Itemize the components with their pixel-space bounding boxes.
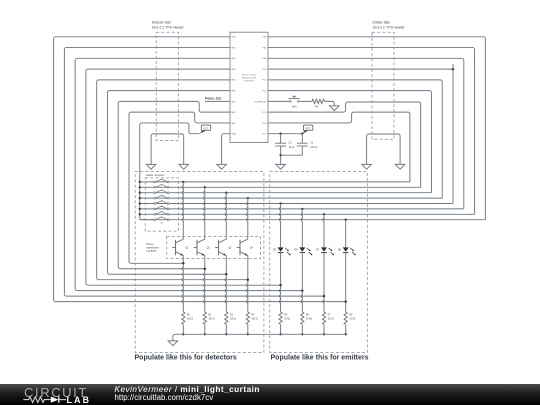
svg-text:100 Ω: 100 Ω	[187, 319, 193, 321]
svg-text:Q1: Q1	[185, 247, 189, 250]
wire matrix row 1	[169, 181, 410, 183]
wire PA5 to bottom row 5	[86, 69, 281, 285]
wire matrix row 7	[169, 213, 474, 215]
LED D8	[343, 247, 349, 251]
svg-text:R3: R3	[230, 314, 234, 316]
wire anode column D8	[345, 220, 347, 248]
wire GND pin to ground	[222, 134, 230, 165]
svg-text:10 kΩ: 10 kΩ	[349, 319, 355, 321]
resistor R4 100 Ohm	[246, 312, 249, 325]
svg-text:D5: D5	[273, 248, 277, 251]
wire cathode column D5 to R5	[279, 253, 280, 312]
junction R2 rail	[204, 333, 206, 335]
net flag VCC (right)	[302, 131, 308, 134]
junction row 6 at column	[301, 208, 303, 210]
solder jumpers box	[145, 178, 178, 231]
junction cathode D8 bottom row 8	[345, 300, 347, 302]
svg-text:Photo: Photo	[146, 242, 154, 246]
svg-text:D7: D7	[316, 248, 320, 251]
wire emitter column Q1 to R1	[182, 256, 183, 312]
wire emitter column Q4 to R4	[247, 256, 248, 312]
wire SW1 to R9	[299, 100, 312, 102]
ground (caps)	[276, 164, 286, 169]
CircuitLab logo	[0, 384, 110, 405]
svg-text:VCC: VCC	[203, 126, 209, 130]
ground (emitter header left)	[362, 164, 372, 169]
junction PA6 row at column x=302.3	[301, 290, 303, 292]
junction R7 rail	[323, 333, 325, 335]
populate detectors box	[135, 172, 264, 353]
svg-text:R7: R7	[328, 314, 332, 316]
resistor R5 10 kOhm	[279, 312, 282, 325]
wire anode column D5	[279, 204, 280, 248]
junction PA0 row at Q1 column	[182, 262, 184, 264]
junction PB0 row at column x=345.7	[345, 300, 347, 302]
svg-text:D8: D8	[338, 248, 342, 251]
photo transistors box	[167, 237, 261, 259]
junction VCC at C2	[279, 133, 281, 135]
junction PA3 row at column x=226.3	[225, 273, 227, 275]
solder jumper J4	[140, 197, 169, 199]
svg-text:10 kΩ: 10 kΩ	[306, 319, 312, 321]
wire matrix row 3	[169, 192, 431, 194]
svg-text:VCC: VCC	[262, 134, 267, 136]
svg-text:J8: J8	[160, 222, 163, 224]
wire PB2 to top row 7	[268, 48, 475, 215]
svg-text:Populate like this for emitter: Populate like this for emitters	[271, 355, 369, 362]
junction emitter Q2 bottom row 2	[204, 268, 206, 270]
junction row 1 at column	[182, 181, 184, 183]
wire collector column Q3	[225, 193, 226, 239]
svg-text:100 Ω: 100 Ω	[251, 319, 257, 321]
resistor R7 10 kOhm	[322, 312, 325, 325]
solder jumper J8	[140, 219, 169, 221]
detector header box	[156, 32, 178, 140]
junction emitter Q1 bottom row 1	[182, 262, 184, 264]
svg-text:TSSOP20: TSSOP20	[244, 81, 255, 83]
wire emitter column Q3 to R3	[225, 256, 226, 312]
wire PB0 to bottom row 8	[54, 37, 346, 302]
ground (rail)	[168, 341, 178, 346]
LED D6	[299, 247, 305, 251]
svg-text:PC3/RESET: PC3/RESET	[254, 101, 267, 103]
wire PB3 to top row 6	[268, 58, 464, 209]
junction R5 rail	[279, 333, 281, 335]
resistor R9	[312, 99, 325, 103]
wire cathode column D6 to R6	[301, 253, 302, 312]
populate emitters box	[270, 172, 368, 353]
svg-text:10 kΩ: 10 kΩ	[328, 319, 334, 321]
junction row 5 at column	[279, 202, 281, 204]
svg-text:100 Ω: 100 Ω	[230, 319, 236, 321]
svg-text:Q4: Q4	[250, 247, 254, 250]
junction row 8 at column	[345, 219, 347, 221]
wire PC0 to top row 5	[268, 69, 453, 203]
junction cathode D5 bottom row 5	[279, 284, 281, 286]
net flag VCC (left)	[200, 131, 207, 134]
svg-text:Solder Jumpers: Solder Jumpers	[146, 173, 165, 177]
svg-text:10x1 0.1" PTH Header: 10x1 0.1" PTH Header	[152, 26, 185, 30]
junction row 7 at column	[323, 213, 325, 215]
junction R3 rail	[225, 333, 227, 335]
solder jumper J5	[140, 203, 169, 205]
wire ground rail	[173, 334, 346, 341]
wire matrix row 6	[169, 208, 464, 210]
wire collector column Q2	[204, 187, 205, 239]
transistor Q3 (photo)	[219, 239, 227, 243]
solder jumper J7	[140, 213, 169, 215]
svg-text:not BJTs: not BJTs	[146, 249, 157, 253]
wire PA1 to bottom row 2	[118, 101, 230, 268]
resistor R8 10 kOhm	[344, 312, 347, 325]
svg-text:SW1: SW1	[292, 107, 298, 109]
wire VCC pin to decoupling caps	[268, 133, 302, 135]
svg-text:Detector Side: Detector Side	[152, 21, 172, 25]
wire emitter column Q2 to R2	[204, 256, 205, 312]
svg-text:10 kΩ: 10 kΩ	[284, 319, 290, 321]
transistor Q1 (photo)	[176, 239, 184, 243]
svg-text:transistors: transistors	[146, 246, 159, 250]
wire detector header ground bridge	[151, 134, 184, 165]
switch SW1	[290, 101, 292, 103]
svg-text:R4: R4	[251, 314, 255, 316]
wire matrix row 8	[169, 219, 485, 221]
wire R9 to ground	[324, 101, 334, 105]
svg-text:Microcontroller: Microcontroller	[242, 74, 257, 77]
junction emitter Q4 bottom row 4	[247, 279, 249, 281]
wire caps bottom to ground	[281, 154, 303, 156]
resistor R1 100 Ohm	[182, 312, 185, 325]
svg-text:Pulse_Out: Pulse_Out	[205, 96, 222, 100]
svg-text:Emitter Side: Emitter Side	[373, 21, 391, 25]
junction R1 rail	[182, 333, 184, 335]
ground (reset)	[330, 106, 340, 111]
microcontroller U1 ATtiny40 TSSOP20	[230, 32, 268, 142]
svg-text:R8: R8	[349, 314, 353, 316]
svg-text:D6: D6	[294, 248, 298, 251]
junction row 4 at column	[247, 197, 249, 199]
wire PA4 to bottom row 4	[97, 80, 248, 280]
junction PA5 row at column x=280.6	[279, 284, 281, 286]
wire collector column Q1	[182, 182, 183, 239]
wire PA3 to bottom row 3	[107, 91, 230, 275]
svg-text:ATtiny40-XUR: ATtiny40-XUR	[242, 77, 256, 80]
resistor R3 100 Ohm	[225, 312, 228, 325]
LED D5	[278, 247, 284, 251]
wire cathode column D7 to R7	[323, 253, 324, 312]
ground (detector header left)	[146, 164, 156, 169]
wire emitter header ground bridge	[367, 134, 401, 164]
emitter header box	[372, 32, 394, 139]
resistor R2 100 Ohm	[203, 312, 206, 325]
svg-text:C2: C2	[289, 143, 293, 145]
solder jumper J6	[140, 208, 169, 210]
svg-text:R9: R9	[315, 107, 319, 109]
svg-text:Q2: Q2	[207, 247, 211, 250]
junction PA4 row at column x=247.8	[247, 279, 249, 281]
junction PA7 row at column x=324	[323, 295, 325, 297]
wire matrix row 2	[169, 186, 421, 188]
ground (emitter header right)	[395, 164, 405, 169]
solder jumper J3	[140, 192, 169, 194]
svg-text:10 µF: 10 µF	[289, 147, 296, 149]
transistor Q2 (photo)	[197, 239, 205, 243]
capacitor C2 10uF	[280, 134, 282, 144]
junction R8 rail	[345, 333, 347, 335]
junction VCC at C1	[301, 133, 303, 135]
junction PA1 row at Q2 column	[204, 268, 206, 270]
junction R6 rail	[301, 333, 303, 335]
junction R4 rail	[247, 333, 249, 335]
resistor R6 10 kOhm	[301, 312, 304, 325]
wire PC4 to top row 2	[268, 102, 421, 187]
wire PC3/RESET to SW1	[268, 100, 290, 102]
solder jumper J1	[140, 181, 169, 183]
junction PC0 corner stub	[452, 64, 454, 69]
svg-text:C1: C1	[310, 143, 314, 145]
wire PA7 to bottom row 7	[64, 48, 324, 297]
svg-text:Populate like this for detecto: Populate like this for detectors	[135, 355, 237, 362]
wire PC1 to top row 4	[268, 80, 442, 198]
svg-text:R2: R2	[208, 314, 212, 316]
wire collector column Q4	[247, 198, 248, 239]
wire anode column D6	[301, 209, 302, 248]
solder jumper J2	[140, 186, 169, 188]
wire PA0 to bottom row 1	[129, 112, 230, 263]
capacitor C1 100nF	[301, 134, 303, 144]
junction cathode D7 bottom row 7	[323, 295, 325, 297]
ground (MCU GND)	[217, 164, 227, 169]
wire PB1 to top row 8	[268, 37, 485, 220]
wire anode column D7	[323, 214, 324, 247]
wire PA6 to bottom row 6	[75, 58, 302, 290]
svg-text:100 Ω: 100 Ω	[208, 319, 214, 321]
junction emitter Q3 bottom row 3	[225, 273, 227, 275]
wire Pulse_Out stub (PA2)	[205, 100, 230, 102]
ground (detector header right)	[179, 164, 189, 169]
junction row 2 at column	[204, 186, 206, 188]
svg-text:Q3: Q3	[228, 247, 232, 250]
junction row 3 at column	[225, 192, 227, 194]
transistor Q4 (photo)	[240, 239, 248, 243]
svg-text:R6: R6	[306, 314, 310, 316]
junction cathode D6 bottom row 6	[301, 290, 303, 292]
svg-text:10x1 0.1" PTH Header: 10x1 0.1" PTH Header	[373, 26, 406, 30]
LED D7	[321, 247, 327, 251]
wire cathode column D8 to R8	[345, 253, 347, 312]
wire matrix row 4	[169, 197, 442, 199]
svg-text:100 nF: 100 nF	[310, 147, 318, 149]
wire matrix row 5	[169, 203, 453, 205]
wire PC5 to top row 1	[268, 112, 410, 182]
svg-text:VCC: VCC	[305, 126, 311, 130]
wire PC2 to top row 3	[268, 91, 431, 193]
svg-text:R5: R5	[284, 314, 288, 316]
svg-text:GND: GND	[231, 134, 236, 136]
svg-text:R1: R1	[187, 314, 191, 316]
wire VCC to solder jumper bus	[140, 123, 200, 220]
